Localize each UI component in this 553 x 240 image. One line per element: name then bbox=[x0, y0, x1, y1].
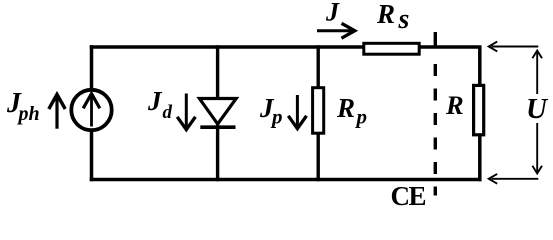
svg-text:U: U bbox=[526, 93, 549, 125]
svg-text:CE: CE bbox=[391, 181, 426, 211]
svg-text:R: R bbox=[445, 90, 464, 120]
svg-text:s: s bbox=[398, 4, 410, 35]
svg-text:p: p bbox=[355, 105, 368, 129]
svg-text:d: d bbox=[163, 102, 173, 123]
svg-text:J: J bbox=[325, 0, 340, 27]
svg-text:J: J bbox=[147, 86, 163, 116]
svg-text:R: R bbox=[376, 0, 395, 29]
svg-text:p: p bbox=[270, 105, 283, 129]
svg-text:R: R bbox=[336, 93, 355, 123]
svg-text:ph: ph bbox=[17, 103, 40, 125]
